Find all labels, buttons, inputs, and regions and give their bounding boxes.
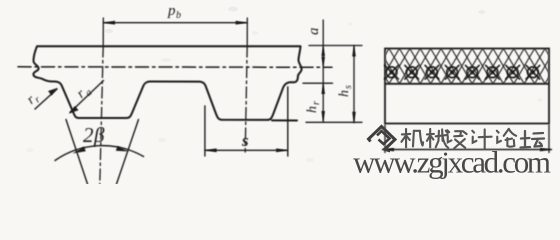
s extension lines [204, 106, 206, 156]
tooth2 centerline [246, 18, 248, 45]
svg-text:h: h [337, 90, 352, 97]
p_b dimension line [103, 22, 247, 24]
r_a leader [70, 81, 104, 113]
right-side extension lines [309, 45, 362, 47]
watermark logo [369, 127, 396, 152]
s dimension line [205, 149, 288, 151]
tooth1 centerline [102, 18, 104, 45]
svg-text:b: b [176, 10, 181, 21]
watermark [353, 127, 551, 180]
h_r arrows [321, 83, 325, 94]
a arrows [321, 46, 325, 56]
hatch lattice [347, 49, 560, 84]
2beta arc [55, 146, 144, 161]
svg-text:s: s [241, 131, 249, 150]
tooth2 tip line right extension [272, 119, 297, 121]
p_b arrows [103, 21, 115, 25]
h_s dimension vertical [353, 45, 355, 122]
belt outline [33, 46, 301, 120]
dimension labels [24, 3, 354, 150]
r_a arrow [69, 106, 79, 114]
a / h_r dimension vertical [322, 20, 324, 122]
svg-text:www.zgjxcad.com: www.zgjxcad.com [353, 145, 551, 180]
watermark CJK text 机械设计论坛 (drawn strokes) [401, 129, 544, 148]
s arrows [205, 148, 217, 152]
pitch dash-dot line [18, 66, 332, 69]
right cross-section drawing [385, 49, 549, 124]
svg-text:a: a [306, 28, 322, 36]
h_s arrows [352, 45, 356, 56]
arrowheads [48, 21, 356, 154]
cords row [368, 71, 557, 73]
svg-text:r: r [311, 101, 322, 105]
bottom width dimension of right drawing [382, 125, 552, 154]
2beta arc arrows [73, 147, 86, 154]
2beta construction right line [117, 120, 139, 185]
svg-text:s: s [343, 85, 354, 89]
2beta construction left line [66, 120, 88, 185]
svg-text:h: h [305, 106, 320, 113]
svg-text:2β: 2β [83, 123, 105, 147]
r_r leader [35, 89, 57, 109]
r_r arrow [48, 88, 58, 96]
svg-text:p: p [167, 3, 176, 19]
